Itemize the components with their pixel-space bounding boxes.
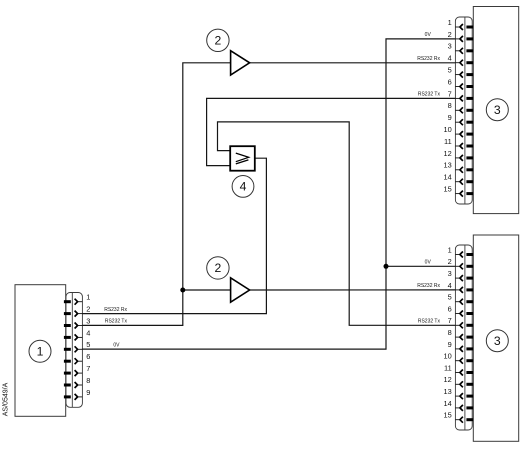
svg-text:8: 8 <box>86 376 90 385</box>
svg-text:3: 3 <box>494 103 501 117</box>
svg-text:4: 4 <box>240 180 247 194</box>
connector 3 (top) pin 6 contact <box>455 84 473 90</box>
svg-text:3: 3 <box>494 334 501 348</box>
svg-text:0V: 0V <box>425 32 432 38</box>
connector 3 (top) contact strip <box>455 17 472 204</box>
connector 3 (top) pin 13 contact <box>455 167 473 173</box>
connector 3 (bottom) pin 11 contact <box>455 370 473 376</box>
connector 1 pin 1 contact <box>64 299 83 305</box>
svg-text:14: 14 <box>443 173 451 182</box>
OR gate U4 body <box>230 146 255 171</box>
svg-text:9: 9 <box>86 388 90 397</box>
svg-text:10: 10 <box>443 125 451 134</box>
svg-text:12: 12 <box>443 375 451 384</box>
connector 3 (top) reference designator balloon 3 <box>486 99 508 121</box>
connector 1 reference designator balloon 1 <box>29 340 51 362</box>
svg-text:2: 2 <box>448 257 452 266</box>
connector 3 (bottom) pin 12 contact <box>455 381 473 387</box>
connector 3 (bottom) pin 5 contact <box>455 299 473 305</box>
svg-text:4: 4 <box>448 54 452 63</box>
buffer (bottom) reference designator balloon 2 <box>207 257 229 279</box>
svg-text:0V: 0V <box>425 260 432 266</box>
buffer amplifier (top) <box>231 51 250 75</box>
connector 3 (bottom) pin 14 contact <box>455 405 473 411</box>
wire OR gate output to connector 1 pin 2 RS232 Rx <box>82 158 266 313</box>
connector 1 contact strip <box>66 293 82 408</box>
svg-text:6: 6 <box>448 304 452 313</box>
svg-text:15: 15 <box>443 411 451 420</box>
wire connector 3 (bottom) pin 7 RS232 Tx to OR gate upper input <box>218 122 456 325</box>
connector 3 (bottom) body outline <box>473 235 518 441</box>
buffer amplifier (bottom) <box>231 278 250 302</box>
connector 3 (bottom) reference designator balloon 3 <box>486 330 508 352</box>
wire 0V branch to connector 3 (bottom) pin 2 <box>386 265 455 267</box>
connector 1 body outline <box>15 285 66 417</box>
connector 1 pin 2 contact <box>64 311 83 317</box>
svg-text:1: 1 <box>37 344 44 358</box>
connector 1 pin 6 contact <box>64 358 83 364</box>
svg-text:5: 5 <box>86 340 90 349</box>
connector 1 pin 7 contact <box>64 370 83 376</box>
svg-text:6: 6 <box>448 77 452 86</box>
connector 3 (bottom) pin 3 contact <box>455 275 473 281</box>
svg-text:RS232 Rx: RS232 Rx <box>417 56 440 62</box>
svg-text:13: 13 <box>443 387 451 396</box>
svg-text:RS232 Rx: RS232 Rx <box>417 283 440 289</box>
connector 3 (top) pin 1 contact <box>455 24 473 30</box>
connector 3 (bottom) pin 9 contact <box>455 346 473 352</box>
connector 3 (top) pin 7 contact <box>455 95 473 101</box>
svg-text:11: 11 <box>444 363 452 372</box>
OR gate &#8805; symbol <box>236 153 249 162</box>
svg-text:8: 8 <box>448 101 452 110</box>
svg-text:9: 9 <box>448 113 452 122</box>
svg-text:3: 3 <box>448 269 452 278</box>
connector 3 (top) pin 4 contact <box>455 60 473 66</box>
connector 3 (top) pin 2 contact <box>455 36 473 42</box>
svg-text:7: 7 <box>448 89 452 98</box>
svg-text:2: 2 <box>448 30 452 39</box>
svg-text:2: 2 <box>86 305 90 314</box>
svg-text:6: 6 <box>86 352 90 361</box>
connector 1 pin 8 contact <box>64 382 83 388</box>
svg-text:13: 13 <box>443 161 451 170</box>
svg-text:1: 1 <box>86 293 90 302</box>
wire bottom buffer output to connector 3 (bottom) pin 4 RS232 Rx <box>249 289 455 291</box>
connector 3 (top) pin 9 contact <box>455 119 473 125</box>
svg-text:15: 15 <box>443 185 451 194</box>
connector 3 (top) pin 11 contact <box>455 143 473 149</box>
wire connector 3 (top) pin 7 RS232 Tx to OR gate lower input <box>207 98 456 165</box>
wire RS232 Tx from connector 1 pin 3 to top buffer input <box>82 63 230 326</box>
junction 0V net <box>384 264 389 269</box>
connector 3 (bottom) pin 10 contact <box>455 358 473 364</box>
svg-text:AS/0549/A: AS/0549/A <box>3 382 10 416</box>
svg-text:8: 8 <box>448 328 452 337</box>
buffer (top) reference designator balloon 2 <box>207 29 229 51</box>
connector 3 (bottom) pin 15 contact <box>455 417 473 423</box>
svg-text:7: 7 <box>448 316 452 325</box>
svg-text:0V: 0V <box>113 342 120 348</box>
connector 3 (top) pin 5 contact <box>455 72 473 78</box>
connector 3 (top) pin 8 contact <box>455 107 473 113</box>
svg-text:5: 5 <box>448 66 452 75</box>
connector 3 (bottom) contact strip <box>455 245 472 430</box>
svg-text:1: 1 <box>448 18 452 27</box>
connector 3 (top) pin 15 contact <box>455 191 473 197</box>
connector 1 pin 5 contact <box>64 346 83 352</box>
svg-text:11: 11 <box>444 137 452 146</box>
connector 3 (bottom) pin 6 contact <box>455 311 473 317</box>
connector 1 pin 9 contact <box>64 394 83 400</box>
svg-text:10: 10 <box>443 352 451 361</box>
svg-text:5: 5 <box>448 293 452 302</box>
svg-text:7: 7 <box>86 364 90 373</box>
connector 1 pin 4 contact <box>64 334 83 340</box>
svg-text:RS232 Tx: RS232 Tx <box>418 92 441 98</box>
svg-text:9: 9 <box>448 340 452 349</box>
wire 0V net: connector 1 pin 5 to connector 3 (top) pin 2 <box>82 39 455 349</box>
svg-text:2: 2 <box>215 261 222 275</box>
connector 3 (top) pin 12 contact <box>455 155 473 161</box>
svg-text:4: 4 <box>448 281 452 290</box>
connector 1 pin 3 contact <box>64 323 83 329</box>
OR gate reference designator balloon 4 <box>232 176 254 198</box>
connector 3 (bottom) pin 13 contact <box>455 393 473 399</box>
svg-text:2: 2 <box>215 34 222 48</box>
svg-text:14: 14 <box>443 399 451 408</box>
junction RS232 Tx net <box>180 288 185 293</box>
connector 3 (top) body outline <box>473 7 518 214</box>
wire branch to bottom buffer input <box>183 289 231 291</box>
connector 3 (bottom) pin 7 contact <box>455 322 473 328</box>
connector 3 (bottom) pin 1 contact <box>455 252 473 258</box>
svg-text:4: 4 <box>86 328 90 337</box>
svg-text:3: 3 <box>448 42 452 51</box>
svg-text:RS232 Tx: RS232 Tx <box>105 319 128 325</box>
connector 3 (bottom) pin 2 contact <box>455 263 473 269</box>
connector 3 (bottom) pin 4 contact <box>455 287 473 293</box>
svg-text:12: 12 <box>443 149 451 158</box>
wire top buffer output to connector 3 (top) pin 4 RS232 Rx <box>249 62 455 64</box>
svg-text:RS232 Tx: RS232 Tx <box>418 319 441 325</box>
svg-text:RS232 Rx: RS232 Rx <box>104 307 127 313</box>
connector 3 (bottom) pin 8 contact <box>455 334 473 340</box>
connector 3 (top) pin 14 contact <box>455 179 473 185</box>
connector 3 (top) pin 3 contact <box>455 48 473 54</box>
connector 3 (top) pin 10 contact <box>455 131 473 137</box>
svg-text:1: 1 <box>448 245 452 254</box>
svg-text:3: 3 <box>86 316 90 325</box>
